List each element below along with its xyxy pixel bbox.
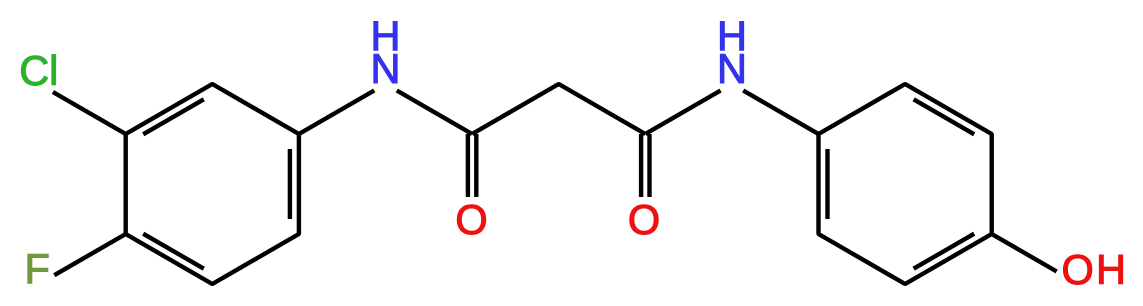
svg-text:O: O xyxy=(455,196,487,243)
svg-text:O: O xyxy=(628,196,660,243)
svg-text:Cl: Cl xyxy=(19,47,58,94)
svg-text:O: O xyxy=(1062,246,1094,293)
svg-text:N: N xyxy=(717,45,747,92)
svg-text:N: N xyxy=(371,45,401,92)
svg-text:H: H xyxy=(1096,246,1126,293)
svg-text:F: F xyxy=(25,245,50,292)
